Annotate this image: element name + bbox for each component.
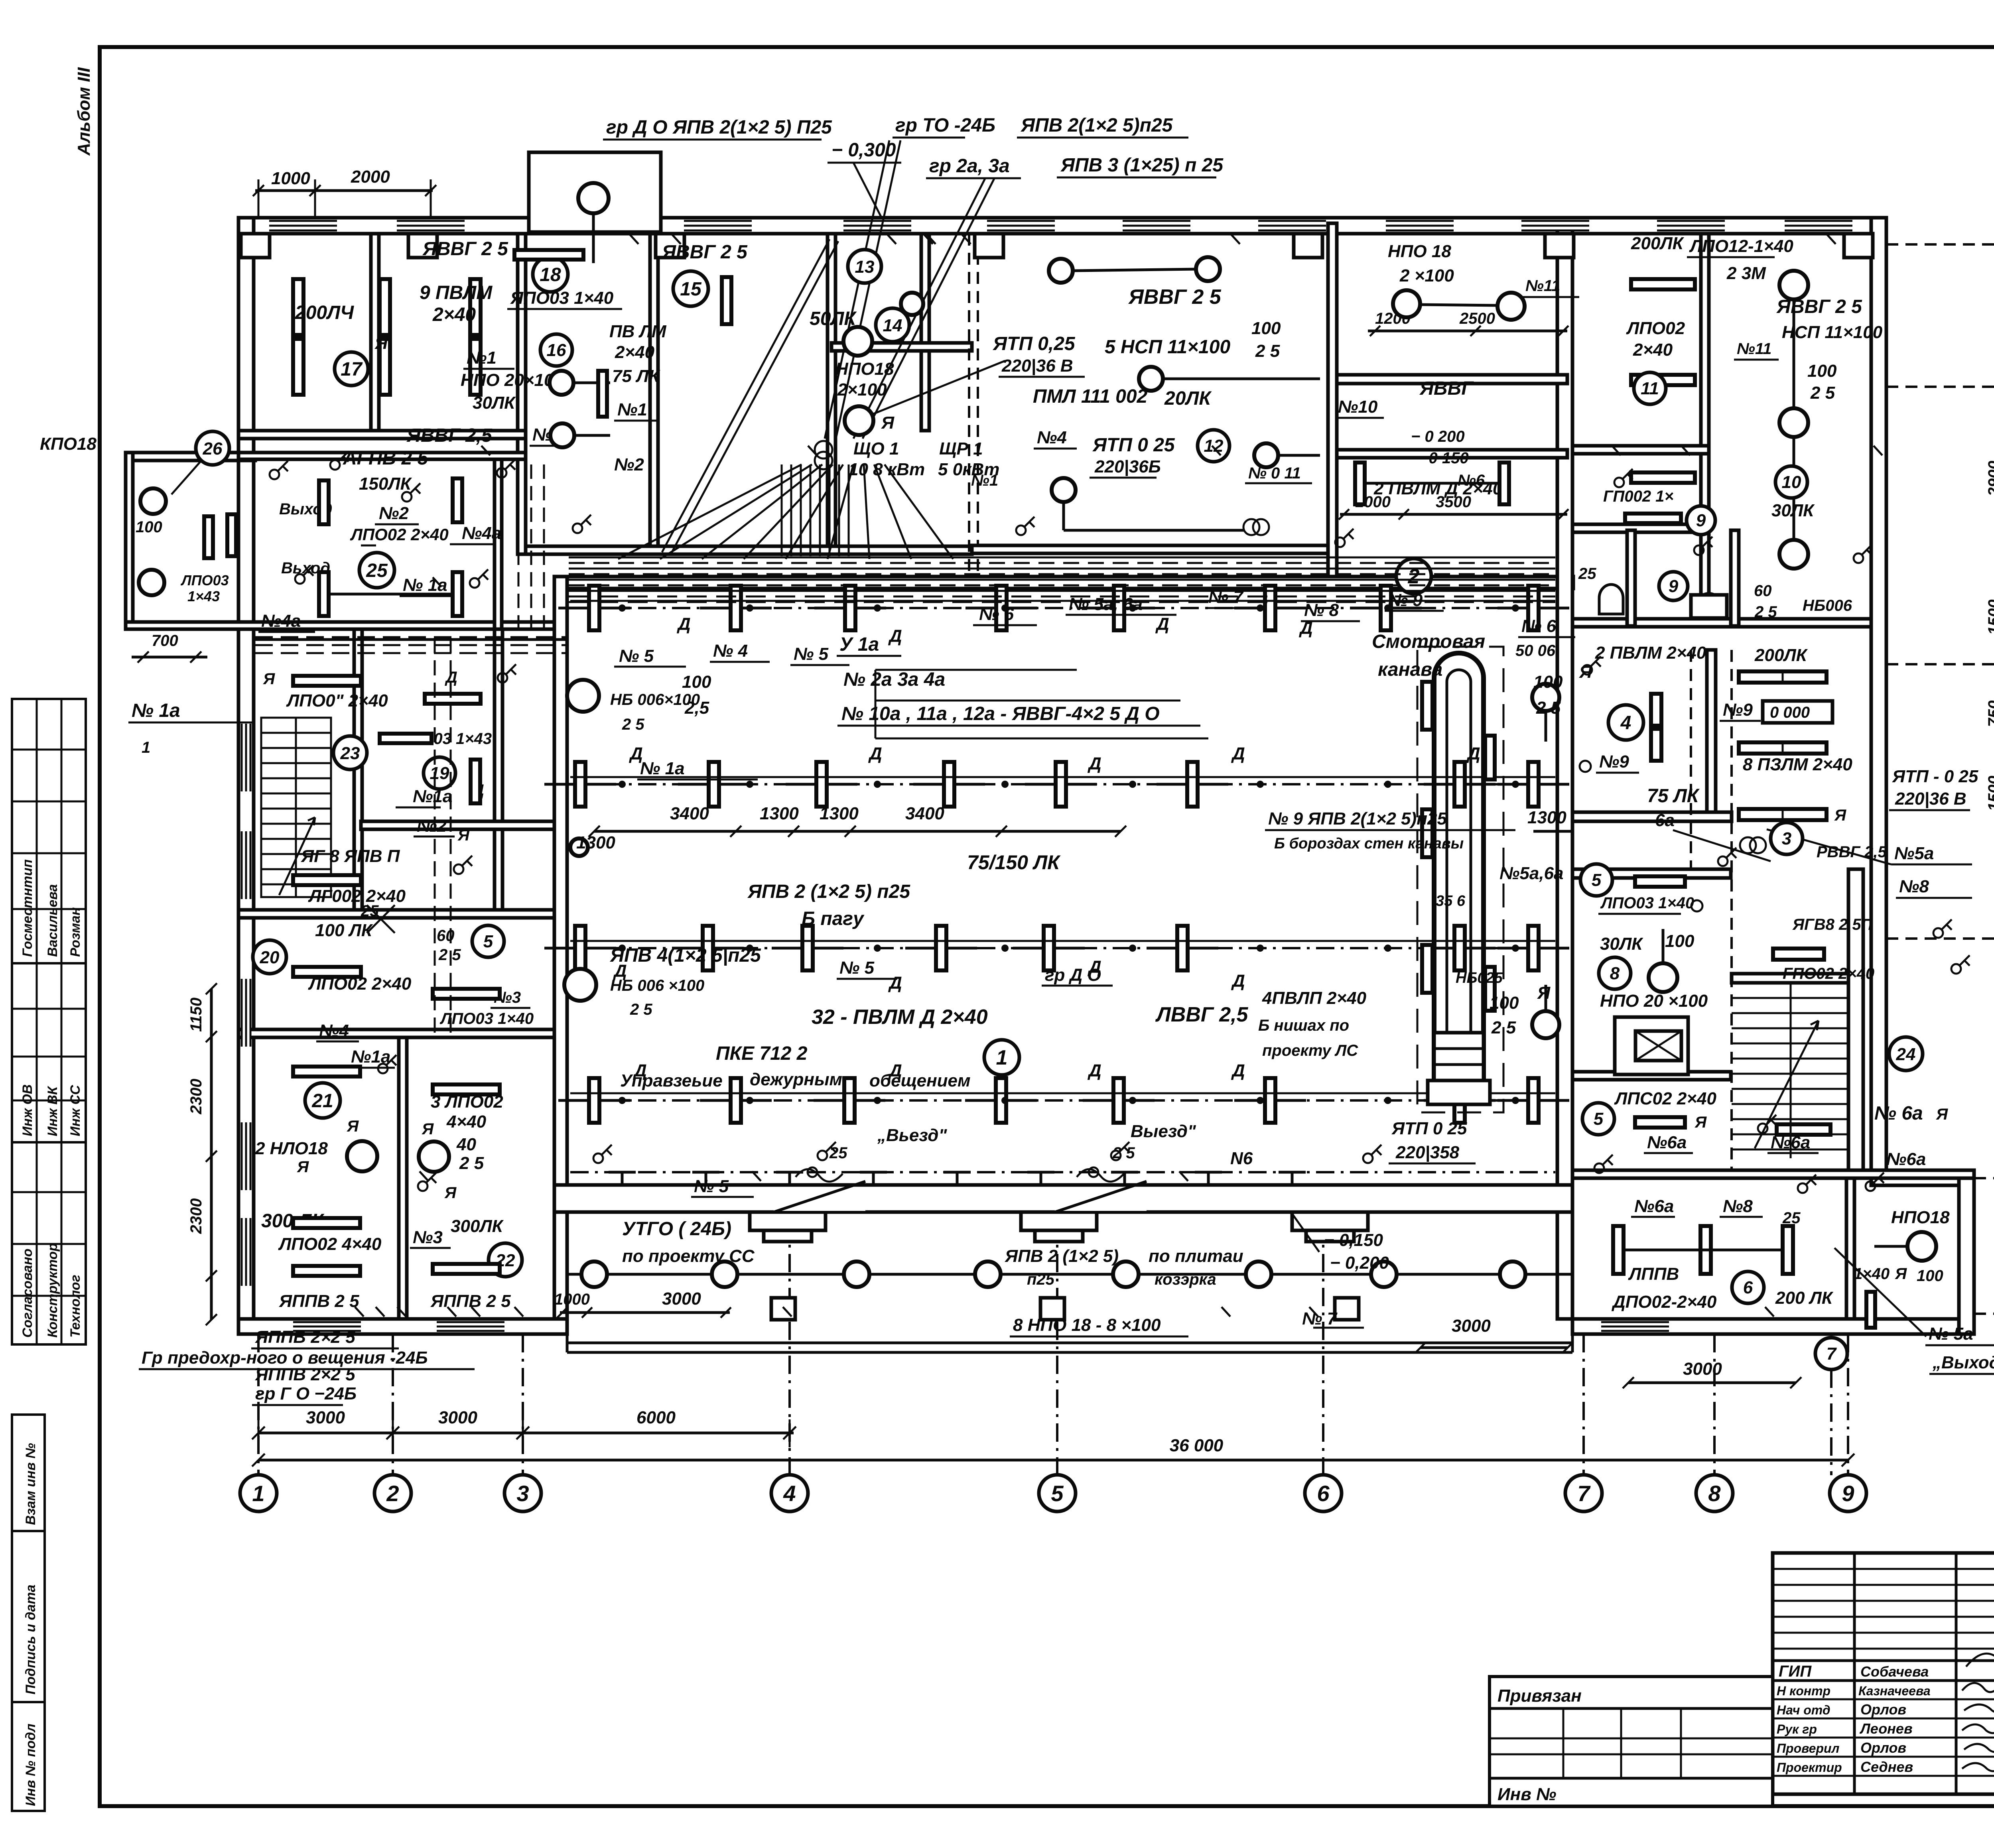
luminaire PVLM	[1454, 1078, 1465, 1123]
svg-text:п25: п25	[1027, 1271, 1055, 1288]
dim 3000 below right	[1421, 1346, 1568, 1349]
svg-text:220|358: 220|358	[1395, 1143, 1460, 1162]
wall partition 13R	[921, 234, 929, 431]
svg-text:гр Г О −24Б: гр Г О −24Б	[255, 1384, 357, 1403]
svg-text:ЯВВГ 2,5: ЯВВГ 2,5	[406, 425, 493, 446]
svg-text:№ 5: № 5	[694, 1177, 729, 1196]
svg-text:НПО18: НПО18	[1891, 1208, 1950, 1227]
cable run y1426	[569, 568, 1555, 570]
svg-text:Д: Д	[1231, 744, 1245, 764]
svg-text:Инв №: Инв №	[1497, 1785, 1556, 1804]
svg-text:ЛПО02 4×40: ЛПО02 4×40	[278, 1234, 382, 1254]
svg-text:№ 5: № 5	[794, 644, 829, 664]
svg-text:ЯГВ8 2 5П: ЯГВ8 2 5П	[1792, 916, 1873, 933]
room number 1	[984, 1040, 1019, 1075]
wall outer bottom right	[1572, 1319, 1974, 1334]
svg-text:„Вьезд": „Вьезд"	[877, 1126, 947, 1145]
right wing rooms	[1580, 643, 1994, 1475]
dim 1000 3000 below left	[560, 1311, 730, 1314]
svg-text:№2: №2	[417, 816, 447, 836]
svg-text:200ЛК: 200ЛК	[1631, 234, 1685, 253]
bottom wiring row	[570, 1171, 1555, 1173]
svg-text:6: 6	[1743, 1278, 1753, 1297]
svg-text:Проверил: Проверил	[1777, 1741, 1840, 1756]
switch	[418, 1181, 428, 1191]
switch	[1594, 1163, 1604, 1173]
gate	[1055, 1187, 1147, 1211]
svg-text:Управзеьие: Управзеьие	[620, 1071, 723, 1090]
svg-text:Д: Д	[1231, 1061, 1245, 1080]
room 13 circle	[848, 250, 881, 283]
wall room4 bottom	[1572, 812, 1732, 821]
svg-text:750: 750	[1985, 701, 1994, 727]
svg-text:50 06: 50 06	[1515, 642, 1556, 659]
svg-text:2 5: 2 5	[1255, 341, 1280, 361]
svg-text:ЯТП 0 25: ЯТП 0 25	[1391, 1119, 1467, 1138]
svg-text:№6а: №6а	[1647, 1133, 1687, 1152]
svg-text:2 5: 2 5	[459, 1153, 484, 1173]
switch	[593, 1153, 603, 1163]
svg-text:Технолог: Технолог	[68, 1275, 83, 1338]
svg-text:36 000: 36 000	[1170, 1436, 1224, 1455]
svg-text:№4а: №4а	[261, 611, 301, 631]
svg-text:75 ЛК: 75 ЛК	[1647, 785, 1700, 807]
window	[843, 220, 911, 231]
svg-text:козэрка: козэрка	[1155, 1271, 1216, 1288]
svg-text:Б бороздах стен канавы: Б бороздах стен канавы	[1274, 835, 1464, 852]
svg-text:Я: Я	[444, 1184, 457, 1202]
svg-text:150ЛК: 150ЛК	[359, 474, 412, 494]
room 14 circle	[876, 308, 909, 342]
wall wing 26 left	[126, 453, 133, 629]
svg-text:Д: Д	[1087, 1061, 1101, 1080]
pilaster	[975, 234, 1003, 258]
column grid axes	[240, 1220, 1866, 1511]
svg-text:Привязан: Привязан	[1497, 1686, 1582, 1706]
luminaire PVLM	[731, 1078, 741, 1123]
svg-text:5: 5	[483, 932, 493, 951]
svg-text:7: 7	[1827, 1344, 1837, 1364]
svg-text:Д: Д	[888, 973, 902, 993]
main hall room 1 contents	[544, 559, 1573, 1353]
svg-text:по плитаи: по плитаи	[1149, 1246, 1243, 1266]
left wall windows	[241, 724, 251, 791]
wall partition 4/3	[1707, 650, 1716, 812]
switch	[378, 1064, 388, 1073]
pilaster	[408, 234, 437, 258]
row grid axes (letters)	[1886, 225, 1994, 1333]
svg-text:12: 12	[1204, 436, 1224, 456]
svg-text:Собачева: Собачева	[1860, 1663, 1929, 1680]
svg-text:100 ЛК: 100 ЛК	[315, 921, 373, 940]
svg-text:НБ006: НБ006	[1803, 597, 1852, 614]
wall nb006 box right	[1731, 530, 1739, 626]
svg-text:100: 100	[1533, 672, 1563, 692]
room 13 lamp	[901, 293, 923, 315]
wall room25 right	[495, 459, 502, 629]
svg-text:100: 100	[1665, 931, 1695, 951]
svg-text:У 1а: У 1а	[839, 634, 879, 655]
left dimension column	[210, 989, 213, 1320]
wall partition 18	[518, 234, 526, 554]
svg-text:100: 100	[1917, 1267, 1943, 1285]
svg-text:1000: 1000	[271, 169, 310, 188]
luminaire PVLM	[703, 926, 713, 970]
wall partition 21/22	[399, 1037, 407, 1319]
svg-text:6: 6	[1317, 1481, 1330, 1506]
grid axis 6	[1322, 1220, 1324, 1475]
svg-text:26: 26	[203, 439, 223, 459]
luminaire PVLM	[944, 762, 954, 807]
window	[1258, 220, 1326, 231]
svg-text:20: 20	[260, 948, 280, 967]
svg-text:ЛПО02 2×40: ЛПО02 2×40	[350, 525, 449, 544]
svg-text:ЯГ 8 ЯПВ П: ЯГ 8 ЯПВ П	[301, 846, 400, 866]
svg-text:Орлов: Орлов	[1860, 1740, 1906, 1756]
windows	[241, 220, 1873, 1352]
vent box NB006 above wall	[529, 152, 661, 232]
luminaire PVLM	[816, 762, 827, 807]
svg-text:Д: Д	[888, 626, 902, 646]
corridor dashed bundle left	[434, 638, 436, 1035]
wall room8 top	[1572, 869, 1731, 878]
window	[397, 220, 465, 231]
svg-text:1000: 1000	[554, 1291, 590, 1308]
svg-text:2 ×100: 2 ×100	[1399, 266, 1454, 285]
svg-text:21: 21	[311, 1090, 333, 1112]
wall block15 bottom	[526, 546, 972, 554]
window	[1601, 1321, 1669, 1332]
svg-text:5: 5	[1051, 1481, 1064, 1506]
svg-text:АГПВ 2 5: АГПВ 2 5	[343, 448, 429, 469]
room 18 circle	[533, 257, 568, 292]
svg-text:№ 6: № 6	[979, 604, 1014, 624]
luminaire PVLM	[936, 926, 946, 970]
luminaire PVLM	[1454, 762, 1465, 807]
wall room25 bottom	[126, 622, 554, 629]
svg-text:№ 4: № 4	[713, 641, 748, 661]
svg-text:3400: 3400	[670, 804, 709, 823]
svg-text:2×40: 2×40	[615, 342, 655, 362]
cable run y1468	[569, 585, 1555, 586]
svg-text:100: 100	[1807, 361, 1837, 381]
svg-text:„Выход": „Выход"	[1932, 1353, 1994, 1372]
svg-text:№ 6а: № 6а	[1874, 1103, 1923, 1124]
svg-text:НСП 11×100: НСП 11×100	[1782, 323, 1883, 342]
window	[293, 1321, 361, 1332]
hall text labels	[576, 587, 1592, 1336]
svg-text:2 5: 2 5	[1810, 383, 1835, 403]
switch	[1694, 545, 1704, 555]
svg-text:ЯТП - 0 25: ЯТП - 0 25	[1892, 767, 1978, 786]
pilaster	[1545, 234, 1574, 258]
svg-text:НБ025: НБ025	[1456, 970, 1503, 986]
svg-text:700: 700	[152, 632, 178, 649]
svg-text:№6а: №6а	[1886, 1149, 1926, 1169]
svg-text:10: 10	[1782, 472, 1801, 492]
svg-text:Смотровая: Смотровая	[1372, 631, 1485, 652]
switch	[295, 574, 305, 584]
svg-text:№10: №10	[1338, 397, 1378, 417]
svg-text:2 5: 2 5	[1536, 698, 1561, 718]
svg-text:2: 2	[386, 1481, 399, 1506]
svg-text:Д: Д	[868, 744, 882, 764]
pilaster	[1844, 234, 1873, 258]
dim 3000 bottom right	[1628, 1382, 1796, 1384]
svg-text:200 ЛК: 200 ЛК	[1775, 1288, 1834, 1308]
grid axis 2	[392, 1334, 394, 1475]
switch	[402, 492, 412, 502]
svg-text:ЯПВ 2(1×2 5)п25: ЯПВ 2(1×2 5)п25	[1020, 115, 1173, 136]
switch	[498, 673, 507, 683]
svg-text:9: 9	[1696, 511, 1706, 530]
svg-text:ЩР 1: ЩР 1	[939, 439, 983, 459]
svg-text:4: 4	[1620, 712, 1631, 734]
wall room8 bottom	[1572, 1072, 1731, 1080]
svg-text:200ЛК: 200ЛК	[1754, 646, 1808, 665]
svg-text:0 000: 0 000	[1770, 704, 1810, 721]
svg-text:№ 1а: № 1а	[132, 700, 180, 721]
svg-text:ЯВВГ 2 5: ЯВВГ 2 5	[661, 242, 748, 263]
luminaire PVLM	[844, 1078, 855, 1123]
luminaire PVLM	[996, 586, 1007, 630]
transformer symbol	[815, 441, 832, 459]
luminaire PVLM	[1528, 926, 1539, 970]
wall stair23 right	[354, 629, 362, 917]
svg-text:ГП002 1×: ГП002 1×	[1603, 488, 1674, 505]
svg-text:КПО18: КПО18	[40, 434, 97, 454]
svg-text:ЯППВ 2×2 5: ЯППВ 2×2 5	[255, 1365, 355, 1384]
room 12 circle and lamps	[1198, 430, 1230, 462]
svg-text:6000: 6000	[636, 1408, 676, 1427]
svg-text:3: 3	[1782, 829, 1791, 848]
wall room12 bottom	[972, 545, 1328, 553]
svg-text:ЛПО12-1×40: ЛПО12-1×40	[1689, 236, 1793, 256]
wall yavvg room bottom	[1337, 450, 1567, 458]
svg-text:ЛПС02 2×40: ЛПС02 2×40	[1614, 1089, 1716, 1108]
canopy pilasters	[750, 1212, 826, 1230]
wall room19 bottom	[361, 821, 554, 829]
svg-text:Д: Д	[1466, 744, 1480, 764]
window	[269, 220, 337, 231]
svg-text:Я: Я	[881, 413, 895, 433]
top band rooms	[293, 234, 1883, 621]
svg-text:ДПО02-2×40: ДПО02-2×40	[1611, 1292, 1717, 1312]
heavy bundle lines	[255, 638, 567, 641]
cable run y1412	[569, 562, 1555, 564]
svg-text:14: 14	[883, 316, 902, 335]
svg-text:ЯВВГ 2 5: ЯВВГ 2 5	[1128, 285, 1222, 309]
diagonal leader across room 15	[662, 239, 830, 552]
svg-text:1300: 1300	[1527, 808, 1566, 827]
cable run y1398	[569, 557, 1555, 559]
svg-text:ЯПВ 2 (1×2 5) п25: ЯПВ 2 (1×2 5) п25	[747, 881, 910, 902]
grid axis Г	[1886, 663, 1994, 665]
switch	[1718, 856, 1728, 866]
pit niche luminaires	[1422, 682, 1432, 730]
svg-text:ЯППВ 2×2 5: ЯППВ 2×2 5	[255, 1327, 355, 1347]
luminaire PVLM	[575, 762, 585, 807]
wall outer bottom left	[238, 1319, 567, 1334]
svg-text:№ 5а: № 5а	[1929, 1324, 1973, 1344]
svg-text:2×40: 2×40	[432, 304, 476, 325]
luminaire PVLM	[996, 1078, 1006, 1123]
dim line 1000/2000	[255, 189, 433, 192]
pit ladder	[1434, 1033, 1484, 1080]
grid axis Б	[1974, 1177, 1994, 1179]
building walls	[126, 218, 1974, 1334]
wall wing 26 bottom	[126, 622, 255, 629]
svg-text:№ 5: № 5	[619, 646, 654, 666]
svg-text:№ 8: № 8	[1304, 600, 1339, 620]
svg-text:35 6: 35 6	[1436, 893, 1466, 909]
svg-text:№1: №1	[467, 348, 497, 368]
luminaire PVLM	[1113, 1078, 1124, 1123]
switch	[818, 1151, 827, 1160]
switch	[1933, 928, 1943, 938]
svg-text:№ 10а , 11а , 12а - ЯВВГ-4×2 5: № 10а , 11а , 12а - ЯВВГ-4×2 5 Д О	[841, 703, 1160, 724]
svg-text:4×40: 4×40	[446, 1112, 487, 1132]
svg-text:3: 3	[516, 1481, 529, 1506]
switch	[1111, 1151, 1121, 1160]
svg-text:3000: 3000	[662, 1289, 701, 1309]
svg-text:Д: Д	[676, 614, 691, 634]
luminaire PVLM	[1187, 762, 1198, 807]
cable run y1440	[569, 573, 1555, 575]
svg-text:№ 5: № 5	[839, 958, 875, 978]
luminaire wiring row y1525	[570, 607, 1555, 609]
svg-text:1150: 1150	[187, 998, 205, 1032]
grid axis Д	[1886, 386, 1994, 388]
svg-text:№2: №2	[379, 504, 409, 523]
luminaire PVLM	[1454, 926, 1465, 970]
wall wing wall y2945	[1572, 1170, 1974, 1178]
grid axis А	[1974, 1313, 1994, 1315]
left margin stamp tables	[12, 699, 86, 1811]
svg-text:2500: 2500	[1459, 310, 1495, 327]
svg-text:− 0,150: − 0,150	[1324, 1230, 1383, 1250]
wall room21 top	[238, 1029, 554, 1037]
window	[1123, 220, 1190, 231]
wall outer right	[1871, 218, 1886, 1178]
wall hall right / band divider	[1557, 223, 1572, 1319]
luminaire PVLM	[1044, 926, 1054, 970]
svg-text:Инж ОВ: Инж ОВ	[20, 1084, 35, 1136]
window	[1657, 220, 1725, 231]
svg-text:№ 2а 3а 4а: № 2а 3а 4а	[843, 669, 945, 690]
svg-text:ЛВВГ 2,5: ЛВВГ 2,5	[1155, 1003, 1249, 1026]
svg-text:100: 100	[136, 518, 162, 536]
svg-text:Инж ВК: Инж ВК	[45, 1086, 60, 1136]
svg-text:ЯПВ 3 (1×25) п 25: ЯПВ 3 (1×25) п 25	[1060, 155, 1224, 176]
room number 2	[1396, 559, 1431, 594]
svg-text:ЩО 1: ЩО 1	[853, 439, 899, 459]
svg-text:1: 1	[252, 1481, 264, 1506]
svg-text:Альбом III: Альбом III	[74, 67, 94, 156]
svg-text:8 ПЗЛМ 2×40: 8 ПЗЛМ 2×40	[1743, 755, 1852, 774]
svg-text:2 3М: 2 3М	[1726, 264, 1766, 283]
svg-text:1: 1	[142, 739, 150, 756]
svg-text:8: 8	[1708, 1481, 1721, 1506]
svg-text:гр ТО -24Б: гр ТО -24Б	[895, 115, 995, 136]
svg-text:ЯПВ 4(1×2 5|п25: ЯПВ 4(1×2 5|п25	[609, 945, 761, 966]
window	[1785, 220, 1852, 231]
svg-text:Я: Я	[347, 1118, 359, 1135]
svg-text:5: 5	[1594, 1109, 1604, 1129]
wall partition 13L	[828, 234, 835, 554]
svg-text:2 5: 2 5	[630, 1001, 652, 1018]
svg-text:№1: №1	[617, 400, 647, 419]
luminaire PVLM	[1528, 762, 1539, 807]
svg-text:60: 60	[437, 927, 455, 945]
svg-text:ЯВВГ 2 5: ЯВВГ 2 5	[422, 238, 508, 260]
svg-text:1×43: 1×43	[187, 588, 220, 604]
svg-text:№4: №4	[319, 1021, 349, 1041]
svg-text:дежурным: дежурным	[750, 1070, 842, 1089]
switch	[1758, 1124, 1767, 1133]
svg-text:2300: 2300	[187, 1199, 205, 1234]
luminaire PVLM	[1056, 762, 1066, 807]
svg-text:3400: 3400	[905, 804, 944, 823]
window	[1386, 220, 1454, 231]
svg-text:Я: Я	[1834, 807, 1846, 824]
svg-text:№1: №1	[971, 472, 998, 489]
svg-text:проекту ЛС: проекту ЛС	[1262, 1042, 1358, 1059]
luminaire PVLM	[1528, 1078, 1539, 1123]
wall outer top	[238, 218, 1886, 234]
luminaire PVLM	[1265, 586, 1275, 630]
svg-text:10 8 кВт: 10 8 кВт	[849, 460, 925, 479]
luminaire wiring row y2760	[570, 1099, 1555, 1102]
svg-text:Выезд": Выезд"	[1131, 1122, 1196, 1141]
svg-text:ЯВВГ: ЯВВГ	[1419, 378, 1474, 399]
svg-text:по проекту СС: по проекту СС	[622, 1246, 755, 1266]
svg-text:ЛПО03 1×40: ЛПО03 1×40	[439, 1010, 534, 1027]
svg-text:НПО 18: НПО 18	[1388, 242, 1451, 261]
svg-text:канава: канава	[1378, 659, 1442, 680]
svg-text:11: 11	[1641, 379, 1659, 398]
svg-text:220|36 В: 220|36 В	[1895, 789, 1966, 809]
switch	[1363, 1153, 1373, 1163]
room 16 circle	[540, 334, 572, 366]
svg-text:УТГО ( 24Б): УТГО ( 24Б)	[622, 1218, 731, 1240]
dimension line 3000-3000-6000	[258, 1432, 794, 1435]
luminaire PVLM	[845, 586, 855, 630]
svg-text:№8: №8	[1899, 877, 1929, 896]
svg-text:18: 18	[540, 264, 561, 285]
grid axis 8	[1713, 1334, 1716, 1475]
svg-text:ПВ ЛМ: ПВ ЛМ	[609, 322, 667, 341]
svg-text:ЛПО03: ЛПО03	[180, 572, 229, 588]
switch	[1798, 1183, 1807, 1193]
svg-text:1×40: 1×40	[1854, 1265, 1890, 1283]
svg-text:30ЛК: 30ЛК	[473, 393, 516, 413]
inspection pit (smotrovaya kanava) dashed outline	[1417, 647, 1503, 1112]
luminaire PVLM	[709, 762, 719, 807]
svg-text:7: 7	[1577, 1481, 1591, 1506]
hoist shaft	[1615, 1017, 1688, 1075]
svg-text:Конструктор: Конструктор	[45, 1243, 60, 1338]
svg-text:32 - ПВЛМ Д 2×40: 32 - ПВЛМ Д 2×40	[812, 1006, 988, 1029]
wall room12 right wall	[1328, 223, 1337, 578]
svg-text:№ 1а: № 1а	[640, 759, 685, 778]
svg-text:1300: 1300	[760, 804, 799, 823]
grid axis Е	[1886, 243, 1994, 246]
svg-text:2 ПВЛМ 2×40: 2 ПВЛМ 2×40	[1595, 643, 1706, 663]
svg-text:16: 16	[547, 340, 566, 360]
wall stair24 top	[1732, 974, 1848, 983]
wall partition 15	[650, 234, 658, 554]
